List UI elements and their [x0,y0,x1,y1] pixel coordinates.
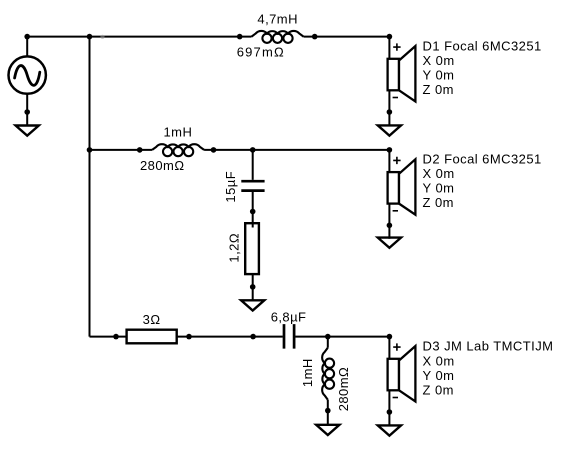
svg-text:Z 0m: Z 0m [423,383,454,398]
svg-text:1mH: 1mH [164,124,193,139]
svg-text:D2 Focal 6MC3251: D2 Focal 6MC3251 [423,152,542,167]
svg-text:3Ω: 3Ω [143,312,161,327]
svg-text:6,8µF: 6,8µF [271,309,307,324]
svg-text:X 0m: X 0m [423,53,455,68]
svg-text:1mH: 1mH [300,358,315,387]
svg-text:280mΩ: 280mΩ [140,158,185,173]
svg-text:1,2Ω: 1,2Ω [226,233,241,263]
svg-text:Y 0m: Y 0m [423,368,455,383]
svg-text:4,7mH: 4,7mH [257,12,298,27]
svg-text:Y 0m: Y 0m [423,181,455,196]
svg-text:D3 JM Lab TMCTIJM: D3 JM Lab TMCTIJM [423,339,554,354]
svg-text:697mΩ: 697mΩ [237,45,285,60]
svg-text:X 0m: X 0m [423,354,455,369]
svg-text:15µF: 15µF [223,171,238,203]
svg-text:Z 0m: Z 0m [423,195,454,210]
svg-text:Y 0m: Y 0m [423,67,455,82]
svg-text:X 0m: X 0m [423,166,455,181]
svg-text:D1 Focal 6MC3251: D1 Focal 6MC3251 [423,39,542,54]
svg-text:Z 0m: Z 0m [423,82,454,97]
svg-text:280mΩ: 280mΩ [336,367,351,412]
